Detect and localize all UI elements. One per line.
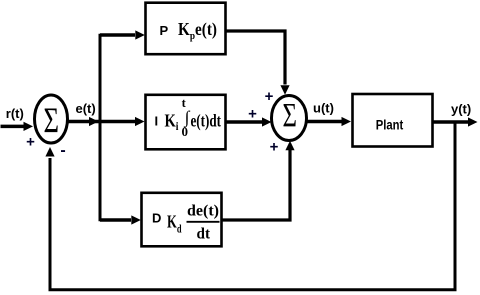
block P [146,3,226,55]
svg-text:I: I [155,114,159,129]
svg-text:+: + [265,88,274,105]
wire I output to S2 left [226,120,262,124]
svg-text:dt: dt [197,226,211,243]
svg-text:Kpe(t): Kpe(t) [178,19,217,42]
svg-text:e(t)dt: e(t)dt [191,111,222,132]
wire y(t) output [433,120,469,124]
svg-text:de(t): de(t) [187,203,219,220]
svg-text:+: + [26,134,35,151]
svg-text:u(t): u(t) [313,101,334,116]
wire branch to D [100,218,131,221]
wire r(t) input [1,125,25,129]
svg-text:Plant: Plant [376,118,404,133]
svg-text:P: P [160,23,169,38]
svg-text:Σ: Σ [43,100,59,140]
svg-text:y(t): y(t) [451,102,471,117]
wire u(t) from S2 to Plant [307,120,344,124]
block D [142,193,222,247]
wire branch to P [100,33,135,36]
summing junction S2 [272,96,307,141]
wire branch vertical [99,34,102,222]
svg-text:+: + [248,106,257,123]
wire feedback loop [50,122,455,290]
svg-text:D: D [152,211,161,226]
svg-text:e(t): e(t) [76,101,96,116]
svg-text:0: 0 [182,124,189,139]
wire D output to S2 bottom [222,150,290,220]
block I [146,95,226,150]
wire P output to S2 top [226,31,285,85]
summing junction S1 [35,95,68,143]
svg-text:+: + [270,139,279,156]
svg-text:Σ: Σ [282,96,296,134]
block Plant [353,94,433,147]
wire e(t) from S1 to I block [68,120,137,124]
svg-text:-: - [60,142,65,159]
svg-text:r(t): r(t) [6,106,24,121]
